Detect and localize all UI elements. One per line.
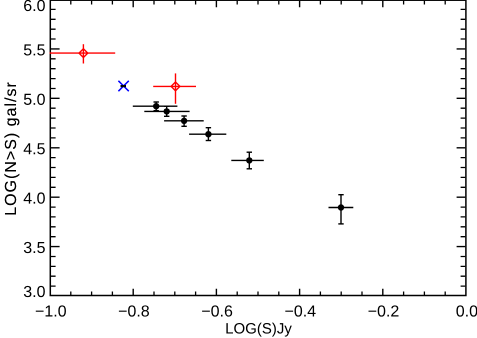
x-axis minor ticks bottom — [71, 292, 445, 296]
y tick label 5.5 — [24, 44, 45, 55]
black point P3 error bars — [164, 116, 204, 126]
x-axis major ticks bottom — [133, 289, 383, 295]
y tick label 3.5 — [24, 242, 45, 253]
y-axis major ticks left — [51, 49, 60, 247]
y axis title LOG(N>S) gal/sr — [4, 82, 19, 214]
black point P2 error bars — [144, 106, 189, 116]
axis frame — [50, 0, 466, 295]
y tick label 3.0 — [24, 286, 45, 297]
y tick label 5.0 — [24, 94, 45, 105]
x tick label -0.4 — [285, 305, 315, 316]
x tick label -1.0 — [36, 305, 66, 316]
x tick label 0.0 — [456, 305, 477, 316]
y tick label 4.5 — [24, 143, 45, 154]
x axis title LOG(S)Jy — [226, 323, 291, 337]
y-axis minor ticks left — [51, 9, 56, 286]
red point R2 error bars — [153, 73, 196, 103]
black point P2 marker — [164, 108, 170, 114]
black point P5 marker — [246, 157, 252, 163]
x-axis minor ticks top — [71, 1, 445, 5]
y-axis minor ticks right — [461, 9, 466, 286]
black point P4 marker — [205, 131, 211, 137]
black point P1 marker — [153, 103, 159, 109]
red point R1 error bars — [50, 44, 116, 63]
x tick label -0.8 — [119, 305, 149, 316]
red point R1 diamond marker — [79, 49, 88, 58]
red point R2 diamond marker — [171, 82, 180, 91]
black point P5 error bars — [231, 152, 263, 169]
black point P6 error bars — [329, 195, 354, 224]
black point P6 marker — [338, 204, 344, 210]
black point P3 marker — [181, 118, 187, 124]
y tick label 4.0 — [24, 192, 45, 203]
x tick label -0.2 — [369, 305, 399, 316]
y-axis major ticks right — [457, 49, 466, 247]
y tick label 6.0 — [24, 0, 45, 11]
blue cross marker — [118, 81, 128, 91]
x tick label -0.6 — [202, 305, 232, 316]
black point P1 error bars — [133, 102, 178, 111]
x-axis major ticks top — [133, 1, 383, 7]
black point P4 error bars — [189, 128, 226, 141]
black bar on blue cross — [121, 85, 127, 87]
